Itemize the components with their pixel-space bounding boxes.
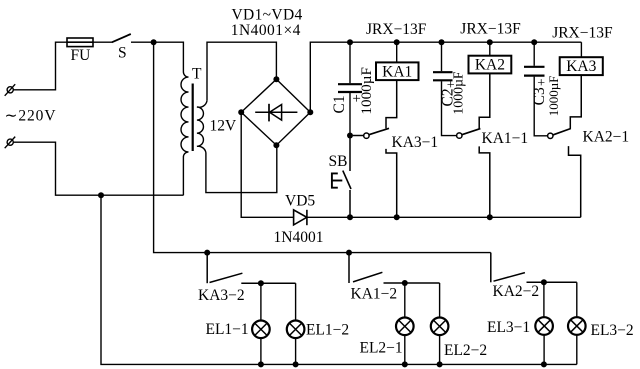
svg-text:KA1: KA1 — [382, 63, 412, 80]
contact KA3-1 — [353, 80, 397, 217]
svg-text:1000µF: 1000µF — [546, 76, 561, 117]
wire: secondary top to bridge AC top — [207, 42, 276, 101]
wire: node N down to lamp bottom rail — [101, 195, 577, 364]
relay coil KA3 — [560, 42, 603, 75]
terminal X1 (~220V line 1) — [5, 84, 16, 96]
junction: contacts rail group2 — [346, 250, 352, 256]
junction: contacts rail group1 — [204, 250, 210, 256]
wire: fuse to switch — [93, 41, 113, 43]
junction: SB bottom rail — [347, 214, 353, 220]
wire: node A down to lamp contacts rail — [154, 42, 491, 252]
transformer T secondary winding — [197, 101, 207, 153]
svg-text:∼220V: ∼220V — [5, 108, 57, 125]
svg-text:FU: FU — [71, 47, 91, 64]
svg-text:T: T — [192, 66, 202, 83]
lamp EL2-1 — [396, 318, 414, 336]
capacitor C1 — [338, 42, 362, 135]
svg-text:VD1~VD4: VD1~VD4 — [232, 6, 303, 23]
svg-text:EL3−1: EL3−1 — [487, 319, 530, 336]
svg-text:EL3−2: EL3−2 — [591, 322, 634, 339]
svg-text:C1: C1 — [331, 95, 348, 113]
push button SB — [332, 136, 351, 218]
svg-text:KA3: KA3 — [566, 58, 596, 75]
lamp EL3-1 — [535, 317, 553, 335]
bridge rectifier VD1~VD4 — [241, 79, 310, 145]
wire: EL2-1 bottom lead — [404, 335, 406, 364]
junction: KA3-1 bottom rail — [394, 214, 400, 220]
wire: EL3-1 bottom lead — [543, 335, 545, 365]
wire: node A to transformer primary top — [154, 42, 184, 72]
wire: bridge - output to relay top rail — [310, 42, 581, 112]
wire: switch to node A — [131, 41, 154, 43]
wire: bridge + output down to VD5 anode — [241, 112, 293, 217]
svg-text:KA3−1: KA3−1 — [392, 134, 439, 151]
svg-text:1N4001: 1N4001 — [274, 229, 324, 246]
wire: EL1-1 bottom lead — [260, 338, 262, 364]
wire: VD5 cathode relay bottom rail — [307, 216, 581, 218]
svg-text:SB: SB — [329, 153, 348, 170]
junction: top rail KA1 — [394, 39, 400, 45]
junction node N — [98, 192, 104, 198]
wire: primary bottom to N line — [182, 157, 184, 195]
contact KA2-1 — [548, 75, 582, 217]
svg-text:JRX−13F: JRX−13F — [366, 21, 427, 38]
junction: top rail KA2 — [487, 39, 493, 45]
junction: EL2-1 bottom — [402, 361, 408, 367]
svg-text:12V: 12V — [210, 118, 238, 135]
wire: X2 to primary bottom (N line) — [13, 142, 183, 195]
junction: top rail C1 — [347, 39, 353, 45]
junction: EL3-1 top — [541, 279, 547, 285]
svg-text:1000µF: 1000µF — [451, 71, 466, 115]
wire: EL2-1 top lead — [404, 283, 406, 318]
svg-text:EL1−2: EL1−2 — [306, 322, 349, 339]
junction: EL1-2 bottom — [293, 361, 299, 367]
capacitor C2 — [433, 42, 457, 135]
svg-text:JRX−13F: JRX−13F — [460, 21, 521, 38]
junction: EL1-1 bottom — [258, 361, 264, 367]
capacitor C3 — [524, 42, 548, 136]
svg-text:KA2−2: KA2−2 — [493, 283, 540, 300]
svg-text:KA2: KA2 — [475, 57, 505, 74]
svg-text:JRX−13F: JRX−13F — [552, 25, 613, 42]
wire: EL3-2 bottom lead — [576, 335, 578, 365]
svg-text:EL2−2: EL2−2 — [444, 342, 487, 359]
transformer core — [192, 84, 194, 152]
contact KA2-2 — [491, 253, 577, 283]
wire: X1 to fuse FU — [13, 42, 67, 90]
svg-text:KA2−1: KA2−1 — [583, 128, 630, 145]
contact KA3-2 — [207, 253, 295, 284]
junction: node A1 (C1/SB/KA3-1) — [347, 133, 353, 139]
contact KA1-1 — [457, 73, 490, 217]
junction: top rail C2 — [439, 39, 445, 45]
wire: EL3-2 top lead — [576, 282, 578, 317]
junction: EL1-1 top — [258, 280, 264, 286]
svg-text:1N4001×4: 1N4001×4 — [231, 22, 301, 39]
fuse FU — [67, 38, 93, 47]
junction: bridge corner left — [238, 109, 244, 115]
wire: EL1-2 top lead — [295, 283, 297, 320]
relay coil KA2 — [469, 42, 512, 73]
svg-text:S: S — [118, 44, 127, 61]
lamp EL1-2 — [287, 321, 305, 339]
diode VD5 — [294, 210, 307, 225]
switch S blade — [112, 34, 131, 42]
svg-text:KA1−1: KA1−1 — [482, 130, 529, 147]
terminal X2 (~220V line 2) — [5, 137, 16, 149]
junction: KA1-1 bottom rail — [487, 214, 493, 220]
transformer T primary winding — [181, 72, 188, 157]
svg-text:VD5: VD5 — [285, 193, 315, 210]
junction: EL2-1 top — [402, 280, 408, 286]
junction node A — [151, 39, 157, 45]
svg-text:EL2−1: EL2−1 — [360, 339, 403, 356]
wire: EL2-2 bottom lead — [439, 335, 441, 364]
junction: bridge corner top — [273, 76, 279, 82]
relay coil KA1 — [376, 42, 419, 80]
wire: secondary bottom to bridge AC bottom — [206, 145, 277, 192]
junction: bridge corner right — [307, 109, 313, 115]
wire: EL1-1 top lead — [260, 283, 262, 320]
svg-text:1000µF: 1000µF — [358, 67, 375, 115]
wire: EL3-1 top lead — [543, 282, 545, 317]
junction: top rail C3 — [531, 39, 537, 45]
junction: EL2-2 bottom — [437, 361, 443, 367]
lamp EL3-2 — [568, 317, 586, 335]
lamp EL1-1 — [252, 321, 270, 339]
wire: EL1-2 bottom lead — [295, 338, 297, 364]
junction: bridge corner bottom — [273, 142, 279, 148]
lamp EL2-2 — [431, 318, 449, 336]
svg-text:KA3−2: KA3−2 — [198, 287, 245, 304]
wire: EL2-2 top lead — [439, 283, 441, 318]
svg-text:KA1−2: KA1−2 — [351, 285, 398, 302]
junction: EL3-1 bottom — [541, 361, 547, 367]
svg-text:EL1−1: EL1−1 — [206, 321, 249, 338]
contact KA1-2 — [349, 253, 440, 283]
